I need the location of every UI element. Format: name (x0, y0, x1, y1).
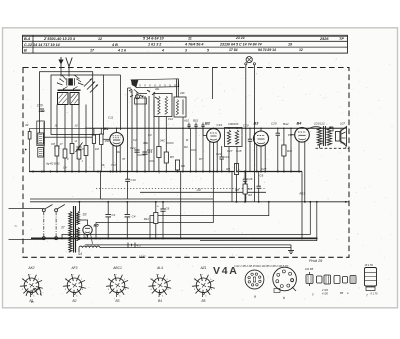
svg-text:a: a (73, 274, 74, 276)
dial scale glass (131, 79, 179, 88)
svg-text:~: ~ (14, 225, 17, 230)
wire jog c (191, 149, 197, 151)
svg-text:4: 4 (195, 278, 196, 281)
svg-text:J6: J6 (102, 163, 105, 167)
svg-text:5: 5 (207, 49, 209, 53)
wire OT sec to speaker (329, 126, 333, 128)
svg-text:C17: C17 (227, 149, 233, 153)
tube base diagram AF3 (63, 266, 86, 303)
svg-text:C6: C6 (166, 207, 170, 211)
tube base diagram ABC1 (106, 266, 129, 303)
wire R9 drop (236, 175, 238, 202)
wire mid drop 2 (131, 90, 133, 172)
wire loop 1 (150, 202, 269, 239)
chassis dashed outline (23, 68, 349, 258)
capacitor C4 (125, 202, 136, 239)
svg-text:1 61 3 2: 1 61 3 2 (148, 43, 162, 47)
resistor R11 (282, 128, 293, 171)
svg-text:C10: C10 (131, 178, 137, 182)
coil window L1 (58, 93, 69, 105)
svg-text:34E: 34E (143, 141, 148, 145)
wire B4 grid (290, 134, 295, 136)
wire B4 pins (298, 141, 300, 171)
resistor row under coil unit (55, 124, 88, 164)
svg-text:C27: C27 (261, 167, 267, 171)
wire B2 grid (203, 135, 207, 137)
heater ground (288, 245, 294, 254)
svg-text:5 14 6-14 10: 5 14 6-14 10 (143, 37, 165, 41)
svg-text:C6: C6 (260, 174, 264, 178)
wire mid bus (29, 171, 302, 173)
rectifier tube B5 (83, 223, 100, 235)
wire B3 top (260, 128, 262, 131)
svg-text:4: 4 (152, 278, 153, 281)
wire antenna into switch (60, 67, 62, 76)
capacitor C10b (125, 172, 136, 200)
svg-text:C23: C23 (224, 155, 230, 159)
svg-text:C2: C2 (133, 138, 137, 142)
heater tap marks (128, 243, 141, 248)
svg-text:C11: C11 (108, 116, 114, 120)
wire speaker return (345, 147, 347, 149)
wire dashed link to border (316, 147, 350, 149)
svg-text:12: 12 (98, 37, 102, 41)
svg-text:4: 4 (161, 49, 164, 53)
resistor R6 (175, 160, 185, 170)
wire loop 4 (96, 172, 213, 239)
svg-text:37: 37 (61, 226, 65, 230)
resistor R3 (148, 147, 161, 158)
wire heater line 1 (85, 244, 291, 246)
svg-text:101/112: 101/112 (314, 122, 325, 126)
wire R5 drop (165, 117, 167, 153)
svg-text:a: a (30, 274, 31, 276)
wire coil unit drop 1 (43, 122, 45, 172)
tube B3 (254, 131, 269, 146)
IF transformer T2 (225, 128, 243, 154)
svg-text:C4: C4 (132, 215, 136, 219)
wire jog b (149, 160, 154, 162)
resistor R2 (38, 148, 44, 158)
svg-text:2-15: 2-15 (317, 140, 324, 144)
svg-text:B-4: B-4 (24, 37, 31, 41)
wire drop x203 (202, 128, 204, 171)
svg-text:B3: B3 (116, 299, 120, 303)
antenna symbol (earth arrow) (58, 57, 63, 67)
svg-text:33: 33 (25, 123, 29, 127)
svg-text:3 /12 1 /05 2 /08 25 R10 1: 3 /12 1 /05 2 /08 25 R10 101 B5 4 /05 2 … (234, 265, 289, 268)
transformer core (74, 206, 76, 253)
svg-text:a: a (158, 274, 159, 276)
wire AVC dotted (96, 187, 266, 189)
title row 1 text (24, 36, 344, 41)
wire B4 plate to OT (307, 127, 320, 130)
wire mid drop 4 (144, 96, 146, 172)
svg-text:B01: B01 (193, 119, 199, 123)
svg-text:B2: B2 (73, 299, 77, 303)
wire B5 cathode (87, 235, 89, 239)
svg-text:S4: S4 (78, 252, 82, 256)
wire coil unit drop 3 (64, 105, 66, 172)
IF transformer T1 (174, 97, 186, 117)
svg-text:B5: B5 (340, 291, 344, 295)
switch contact 1 (45, 205, 53, 210)
mains plug pin 2 (55, 209, 58, 212)
junction dots top bus (116, 128, 292, 130)
svg-text:2526: 2526 (319, 37, 329, 41)
wire drop x180 (180, 172, 182, 239)
tube B4 (295, 128, 310, 143)
antenna symbol (aerial V) (66, 58, 72, 70)
wire T2 drops (228, 147, 230, 172)
svg-text:1: 1 (81, 279, 82, 281)
svg-text:C8: C8 (51, 142, 55, 146)
svg-text:23 23: 23 23 (235, 36, 245, 40)
title row 3 text (24, 48, 303, 53)
wire B2 top (213, 127, 215, 129)
dial pulley (135, 95, 139, 99)
capacitor C27 (257, 167, 267, 202)
coil frame bar (58, 89, 81, 91)
wire B1 pins (112, 145, 114, 171)
svg-text:B5: B5 (202, 299, 206, 303)
wire drop x302 (301, 172, 303, 239)
wire top bus (85, 127, 346, 129)
svg-text:TP: TP (339, 37, 344, 41)
wire heater line 2 (100, 247, 291, 249)
svg-text:4 1 6: 4 1 6 (117, 49, 127, 53)
wire B5 heater drop (91, 234, 93, 244)
capacitor C1 (105, 202, 115, 239)
svg-text:R7: R7 (199, 157, 203, 161)
dial right edge drop (176, 79, 178, 97)
svg-text:R11: R11 (287, 149, 292, 153)
svg-text:19 43: 19 43 (139, 255, 146, 259)
svg-text:4: 4 (23, 278, 24, 281)
wire OT bottom (319, 145, 321, 148)
dial pointer (134, 90, 147, 94)
part drawing f electrolytic can (365, 264, 379, 298)
wire mid drop 6 (153, 100, 155, 172)
capacitor C23 (220, 146, 230, 172)
svg-text:C20: C20 (243, 123, 249, 127)
svg-text:23130 64 5 C 14 74 84 74: 23130 64 5 C 14 74 84 74 (219, 43, 262, 47)
svg-text:C-12 14 14 717 19 14: C-12 14 14 717 19 14 (24, 43, 60, 47)
mains plug pin 3 (42, 237, 45, 240)
resistor R5 (164, 152, 174, 163)
svg-text:Prod 29: Prod 29 (309, 259, 323, 263)
svg-text:T13: T13 (111, 163, 116, 167)
svg-text:R1: R1 (117, 150, 121, 154)
svg-text:4: 4 (66, 278, 67, 281)
svg-text:8 1.75: 8 1.75 (371, 293, 379, 296)
resistor R8 (235, 184, 247, 194)
transformer winding S2 (76, 228, 87, 241)
dial lamp (245, 57, 256, 65)
voltage selector link 1 (43, 212, 45, 237)
svg-text:2 /03: 2 /03 (321, 288, 328, 292)
wire -4V line (140, 188, 266, 192)
wire jog a (137, 154, 145, 156)
svg-text:J8: J8 (55, 124, 58, 128)
wire S4 left (78, 248, 80, 252)
tube B1 (104, 127, 123, 146)
svg-text:Z 5301-40 13 23 4: Z 5301-40 13 23 4 (43, 37, 76, 41)
capacitor C14 (183, 119, 191, 129)
switch contact 2 (57, 205, 65, 210)
coil unit inner box (51, 75, 103, 135)
svg-text:C1: C1 (41, 109, 45, 113)
svg-text:1: 1 (124, 279, 125, 281)
svg-text:1: 1 (210, 279, 211, 281)
transformer winding S3 (76, 212, 86, 225)
svg-text:C12: C12 (130, 146, 136, 150)
resistor R12 (144, 202, 158, 239)
tube base diagram AZ1 (192, 266, 215, 303)
heater winding S4 (78, 246, 100, 256)
svg-text:B: B (24, 49, 27, 53)
svg-text:a: a (116, 274, 117, 276)
svg-text:C14: C14 (168, 117, 173, 121)
svg-text:C4: C4 (63, 166, 67, 170)
svg-text:I04: I04 (248, 187, 252, 191)
part numbers row (234, 265, 289, 268)
junction dots HT bus (78, 201, 346, 203)
svg-text:107: 107 (340, 122, 345, 126)
wire B1 top (116, 128, 118, 132)
wire coil unit drop 5 (78, 105, 80, 172)
svg-text:C29: C29 (271, 122, 277, 126)
wire top feed (212, 68, 214, 100)
wire coil unit drop 4 (71, 105, 73, 172)
part drawing e (334, 276, 356, 296)
wire loop 3 (200, 202, 317, 241)
svg-text:C19: C19 (217, 123, 223, 127)
capacitor C15 (193, 119, 199, 129)
mains input line 1 (9, 208, 44, 210)
handwritten note (26, 288, 42, 304)
output transformer (314, 122, 332, 147)
wire dial top link (128, 87, 131, 89)
wire B5 anode (79, 220, 87, 225)
svg-text:4 B: 4 B (111, 43, 118, 47)
mains plug pin 4 (55, 237, 58, 240)
svg-text:B5: B5 (94, 223, 100, 228)
wire HT tap (78, 202, 80, 212)
svg-text:1: 1 (38, 279, 39, 281)
svg-text:4 76/4 56 4: 4 76/4 56 4 (184, 43, 203, 47)
capacitor C12 (130, 146, 140, 152)
part drawing d (317, 275, 331, 296)
wire lamp lead right (253, 65, 255, 202)
svg-text:R4: R4 (184, 145, 188, 149)
wire HT bus (30, 201, 349, 203)
svg-text:1: 1 (167, 279, 168, 281)
title block table (23, 35, 348, 53)
svg-text:10: 10 (75, 124, 78, 128)
transformer primary S1 (61, 212, 72, 253)
band switch coupling (67, 78, 75, 85)
capacitor C26 (243, 172, 253, 202)
svg-text:4 /05: 4 /05 (322, 292, 328, 296)
svg-text:b: b (283, 296, 285, 300)
oscillator coil box (154, 94, 172, 117)
trimmer C9 (76, 143, 87, 153)
tube B2 (207, 129, 221, 143)
svg-text:a: a (254, 295, 256, 299)
wire R3 drop (158, 117, 160, 147)
tube base diagram AK2 (20, 266, 43, 303)
svg-text:x1: x1 (74, 139, 78, 143)
svg-text:17 84: 17 84 (229, 48, 238, 52)
wire mid drop 3 (136, 92, 138, 172)
svg-text:24F: 24F (179, 91, 185, 95)
svg-text:7K: 7K (122, 157, 125, 161)
capacitor C4b electrolytic (157, 202, 170, 239)
svg-text:18 1.50: 18 1.50 (365, 264, 374, 267)
wire drop x100 (100, 172, 102, 200)
svg-text:C3: C3 (148, 133, 152, 137)
svg-text:S3: S3 (83, 213, 87, 217)
svg-text:AF3: AF3 (70, 266, 77, 270)
voltage selector link 2 (55, 212, 57, 237)
wire jog d (166, 142, 173, 144)
svg-text:R12: R12 (144, 217, 150, 221)
wire grid branch left (30, 127, 85, 129)
capacitor C24 (248, 128, 252, 171)
wire T1 drops (182, 117, 184, 172)
svg-text:AL4: AL4 (156, 266, 163, 270)
svg-text:4: 4 (109, 278, 110, 281)
switch contacts (57, 74, 84, 89)
svg-text:A10: A10 (183, 119, 190, 123)
svg-text:101 B5: 101 B5 (305, 267, 314, 271)
svg-text:ABC1: ABC1 (112, 266, 122, 270)
wire loop 2 (62, 202, 310, 239)
svg-text:34L: 34L (155, 87, 160, 91)
svg-text:Ag-R2 B-02: Ag-R2 B-02 (45, 162, 60, 166)
resistor R1b (92, 128, 95, 171)
wire coil unit drop 6 (85, 105, 87, 172)
wire aerial into switch (68, 69, 70, 77)
svg-text:19: 19 (288, 43, 292, 47)
wire drop x291 (290, 128, 292, 171)
part drawing socket a (245, 270, 264, 298)
svg-text:100433: 100433 (228, 122, 239, 126)
junction dots mid bus (32, 171, 300, 173)
svg-text:R8: R8 (235, 188, 239, 192)
svg-text:+: + (157, 205, 159, 209)
junction dots ground bus (61, 237, 303, 239)
tube base diagram AL4 (148, 266, 171, 303)
part drawing c (305, 267, 314, 297)
wire ground bus thick (31, 237, 318, 239)
wire B3 pins (256, 145, 258, 172)
resistor R1a (100, 128, 110, 171)
svg-text:AK2: AK2 (27, 266, 34, 270)
svg-text:R3: R3 (148, 150, 152, 154)
svg-text:R9: R9 (226, 167, 230, 171)
wire lamp lead left (245, 65, 247, 202)
capacitor C16 (201, 123, 204, 129)
resistor R1 cage (37, 121, 45, 146)
svg-text:B4: B4 (158, 299, 162, 303)
svg-text:12: 12 (299, 48, 303, 52)
capacitor C29 (276, 128, 280, 171)
wire drop x196 (195, 128, 197, 171)
svg-text:11: 11 (188, 37, 192, 41)
wire coil to B1 (103, 74, 120, 76)
svg-text:3: 3 (185, 49, 187, 53)
svg-text:AZ1: AZ1 (199, 266, 206, 270)
wire to primary (56, 208, 61, 210)
coil unit outer box (40, 72, 93, 138)
capacitor C13 (142, 148, 152, 154)
wire mid drop 1 (127, 88, 129, 172)
wire drop x82 (81, 202, 83, 239)
scan speckle texture (11, 35, 393, 302)
wire R6 drop (177, 159, 179, 161)
wire coil unit drop 2 (56, 105, 58, 172)
svg-text:C10: C10 (37, 104, 43, 108)
wire drop x190 (190, 128, 192, 171)
resistor R0 (23, 123, 31, 172)
svg-text:R5: R5 (170, 155, 174, 159)
svg-text:94 74 89 14: 94 74 89 14 (258, 48, 276, 52)
mains input line 2 (9, 238, 44, 240)
wire B1 grid left (103, 138, 109, 140)
mains plug pin 1 (42, 209, 45, 212)
tuning cap arrows (84, 79, 98, 93)
svg-text:B1: B1 (104, 127, 109, 131)
wire drop x232 (231, 172, 233, 202)
wire B2 pins (209, 142, 211, 172)
svg-text:C26: C26 (247, 177, 253, 181)
svg-text:C1: C1 (112, 213, 116, 217)
coil window L2 (70, 93, 79, 105)
wire grid return bus (30, 198, 213, 200)
resistor R9 (226, 164, 238, 175)
capacitor C10 (37, 104, 44, 112)
svg-text:I10: I10 (248, 193, 252, 197)
svg-text:Bnd: Bnd (283, 122, 289, 126)
capacitor C8 (51, 142, 60, 148)
wire mid drop 5 (148, 96, 150, 172)
speaker LS (336, 122, 347, 147)
labels above mid bus (45, 162, 116, 170)
svg-text:a: a (202, 274, 203, 276)
dial drive detail (129, 89, 158, 104)
part drawing socket b (273, 267, 297, 300)
title row 2 text (24, 43, 292, 47)
